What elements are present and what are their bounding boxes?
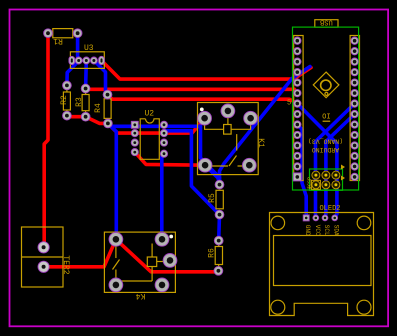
svg-text:ARDUINO: ARDUINO (312, 146, 339, 153)
svg-text:U2: U2 (145, 110, 155, 119)
svg-text:USB: USB (320, 18, 333, 26)
svg-text:SCL: SCL (323, 225, 330, 236)
svg-text:1: 1 (308, 185, 311, 191)
svg-text:K4: K4 (136, 291, 146, 300)
svg-text:U3: U3 (84, 44, 94, 53)
svg-text:K1: K1 (256, 138, 265, 148)
svg-text:SDA: SDA (333, 225, 340, 236)
svg-text:R6: R6 (208, 248, 217, 258)
svg-text:R3: R3 (75, 97, 84, 107)
svg-text:R1: R1 (53, 36, 63, 45)
svg-text:OLED2: OLED2 (319, 205, 340, 213)
svg-text:IO: IO (322, 110, 330, 118)
svg-text:R5: R5 (208, 193, 217, 203)
svg-text:R2: R2 (60, 95, 69, 105)
svg-text:VCC: VCC (314, 225, 321, 236)
svg-text:R4: R4 (94, 103, 103, 113)
svg-text:TER2: TER2 (61, 255, 70, 274)
svg-text:(NANO_V3): (NANO_V3) (308, 138, 343, 145)
svg-text:5: 5 (287, 100, 291, 108)
svg-text:GND: GND (304, 225, 311, 236)
